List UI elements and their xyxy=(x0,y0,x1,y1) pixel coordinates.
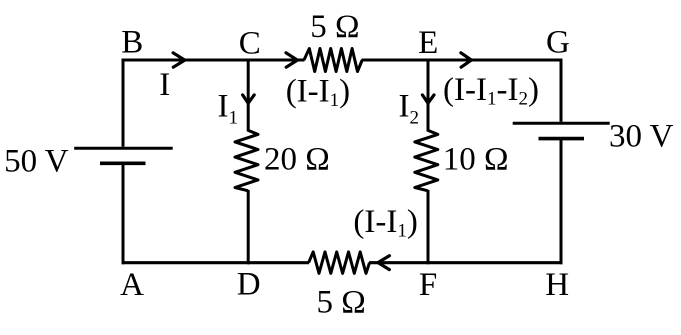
wire F to H (bottom right horizontal) xyxy=(427,261,563,264)
svg-text:I: I xyxy=(159,67,170,103)
wire resistor R2 down to D xyxy=(247,190,250,264)
node C xyxy=(239,25,261,61)
resistor R2 20 ohm (vertical, C to D) xyxy=(235,130,258,190)
current label I1 xyxy=(218,88,239,128)
current label (I-I1) above resistor R4 xyxy=(353,204,417,242)
node E xyxy=(418,25,438,61)
current label I xyxy=(159,67,170,103)
svg-text:20 Ω: 20 Ω xyxy=(264,142,330,178)
wire E to G (top right horizontal) xyxy=(427,59,563,62)
current arrow I on wire B-C xyxy=(173,53,185,67)
wire E down to resistor R3 xyxy=(427,60,430,132)
value label 5 ohm for R4 xyxy=(317,285,366,321)
svg-text:G: G xyxy=(546,24,570,60)
wire resistor R4 to F xyxy=(369,261,428,264)
wire C down to resistor R2 xyxy=(247,60,250,132)
svg-text:H: H xyxy=(545,267,569,303)
node G xyxy=(546,24,570,60)
wire B to C (top left horizontal) xyxy=(122,59,250,62)
battery V2 30V negative plate (short) xyxy=(539,137,585,141)
svg-text:5 Ω: 5 Ω xyxy=(317,285,366,321)
node F xyxy=(419,267,437,303)
node D xyxy=(237,266,261,302)
svg-text:F: F xyxy=(419,267,437,303)
battery V1 50V positive plate (long) xyxy=(74,147,173,150)
svg-text:E: E xyxy=(418,25,438,61)
svg-text:D: D xyxy=(237,266,261,302)
svg-text:A: A xyxy=(120,267,144,303)
value label 30 V for battery V2 xyxy=(609,119,674,155)
svg-text:5 Ω: 5 Ω xyxy=(310,9,359,45)
wire C to resistor R1 xyxy=(248,59,305,62)
current arrow (I-I1-I2) on wire E-G xyxy=(461,53,472,67)
wire G down to battery V2 (right vertical top) xyxy=(560,59,563,122)
wire B down to battery V1 (left vertical top) xyxy=(122,59,125,147)
battery V1 50V negative plate (short) xyxy=(100,162,146,166)
svg-text:(I-I1): (I-I1) xyxy=(353,204,417,242)
svg-text:50 V: 50 V xyxy=(4,144,69,180)
node H xyxy=(545,267,569,303)
wire D to resistor R4 xyxy=(248,261,309,264)
svg-text:(I-I1): (I-I1) xyxy=(286,73,350,111)
svg-text:30 V: 30 V xyxy=(609,119,674,155)
current label (I-I1) below resistor R1 xyxy=(286,73,350,111)
value label 50 V for battery V1 xyxy=(4,144,69,180)
svg-text:B: B xyxy=(121,25,143,61)
wire battery V1 to A (left vertical bottom) xyxy=(122,165,125,265)
wire resistor R1 to E xyxy=(362,59,429,62)
current arrow I2 on wire E-F xyxy=(422,95,434,103)
value label 5 ohm for R1 xyxy=(310,9,359,45)
resistor R1 5 ohm (top, between C and E) xyxy=(304,49,362,72)
wire resistor R3 down to F xyxy=(427,190,430,264)
current label (I-I1-I2) on wire E-G xyxy=(443,72,539,110)
node A xyxy=(120,267,144,303)
battery V2 30V positive plate (long) xyxy=(513,122,610,125)
svg-text:10 Ω: 10 Ω xyxy=(443,142,509,178)
current label I2 xyxy=(399,88,420,128)
resistor R4 5 ohm (bottom, between D and F) xyxy=(309,252,370,274)
value label 20 ohm for R2 xyxy=(264,142,330,178)
node B xyxy=(121,25,143,61)
current arrow (I-I1) on wire F-D pointing left xyxy=(378,256,389,270)
current arrow (I-I1) into resistor R1 xyxy=(286,53,297,67)
current arrow I1 on wire C-D xyxy=(243,95,255,103)
resistor R3 10 ohm (vertical, E to F) xyxy=(415,130,438,190)
svg-text:C: C xyxy=(239,25,261,61)
wire A to D (bottom left horizontal) xyxy=(122,261,250,264)
value label 10 ohm for R3 xyxy=(443,142,509,178)
wire battery V2 to H (right vertical bottom) xyxy=(560,140,563,264)
